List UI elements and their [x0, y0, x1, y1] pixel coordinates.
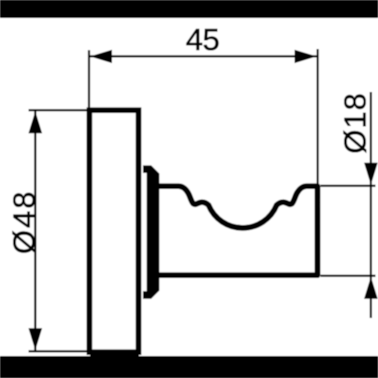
dimension Ø48: bottom extension line	[29, 350, 88, 352]
dimension Ø48: dimension line	[34, 110, 36, 351]
hook body (profile with saddle curve, right edge, bottom edge)	[159, 186, 318, 275]
svg-text:Ø48: Ø48	[6, 189, 41, 254]
dimension 45: right extension line (hook tip)	[317, 49, 319, 186]
dimension 45: left arrowhead	[90, 50, 112, 63]
collar (mounting flange behind hook, chamfered right corners)	[143, 165, 159, 298]
plate foot merging into band	[90, 351, 139, 357]
dimension 45: dimension line	[89, 55, 318, 57]
dimension 45: right arrowhead	[295, 50, 317, 63]
dimension Ø48: top arrowhead	[29, 111, 43, 133]
dimension Ø48: top extension line	[29, 109, 88, 111]
black band at top of page	[0, 0, 378, 18]
dimension 45: left extension line (wall face)	[88, 50, 90, 112]
dimension Ø18: top extension line	[321, 185, 376, 187]
svg-text:45: 45	[186, 22, 219, 57]
svg-text:Ø18: Ø18	[338, 92, 373, 154]
dimension Ø48: bottom arrowhead	[29, 328, 43, 350]
dimension Ø18: bottom arrowhead (points up)	[364, 277, 378, 299]
dimension Ø18: dimension line	[370, 92, 372, 318]
dimension Ø18: top arrowhead (points down)	[364, 163, 378, 185]
black band at bottom of page	[0, 356, 378, 378]
wall plate (side view, Ø48 backplate)	[89, 110, 138, 352]
dimension Ø18: bottom extension line	[321, 275, 376, 277]
